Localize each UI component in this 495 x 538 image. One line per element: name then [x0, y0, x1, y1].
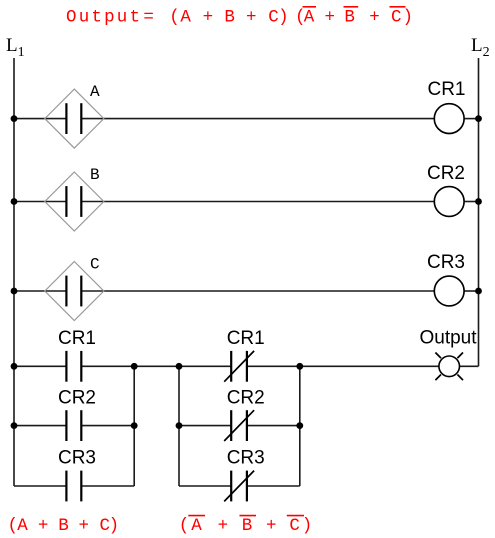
- relay coil CR2: [434, 187, 464, 217]
- node L2-rung1: [475, 115, 482, 122]
- contact CR3 NO bars: [65, 471, 67, 502]
- right power rail L2: [478, 58, 480, 366]
- node bus2-rung4: [176, 363, 183, 370]
- contact CR1 NC slash: [224, 351, 254, 382]
- wire rung2 middle: [81, 201, 434, 203]
- wire rung4 to lamp: [247, 365, 439, 367]
- wire rung4 middle: [81, 365, 231, 367]
- wire CR3-row left: [14, 485, 66, 487]
- svg-text:CR3: CR3: [427, 252, 465, 273]
- title equation: Output = (A + B + C)(A̅ + B̅ + C̅): [66, 8, 413, 28]
- relay coil CR3: [434, 276, 464, 306]
- wire CR3-row to bus1: [81, 485, 134, 487]
- contact C bars: [65, 276, 67, 307]
- svg-text:CR2: CR2: [227, 388, 265, 409]
- output lamp: [435, 353, 463, 381]
- node L2-rung3: [475, 288, 482, 295]
- overbar over B in title: [344, 6, 359, 8]
- overbar over C in bottom label: [287, 515, 304, 517]
- node L2-rung2: [475, 198, 482, 205]
- bus1 vertical (right side of NO group): [133, 366, 135, 486]
- svg-text:CR2: CR2: [427, 163, 465, 184]
- wire rung4 left: [14, 365, 66, 367]
- node L1-rung3: [11, 288, 18, 295]
- input B diamond enclosure: [45, 172, 104, 231]
- wire rung1 right: [464, 118, 478, 120]
- contact CR2 NO bars: [65, 410, 67, 441]
- wire CR2-row bus2 to contact: [179, 425, 231, 427]
- svg-text:CR3: CR3: [58, 448, 96, 469]
- wire rung3 right: [464, 290, 478, 292]
- node bus2-CR2row: [176, 422, 183, 429]
- svg-text:A: A: [90, 83, 100, 101]
- overbar over C in title: [390, 6, 406, 8]
- overbar over A in bottom label: [188, 515, 205, 517]
- svg-text:=: =: [143, 8, 154, 28]
- left power rail L1: [13, 58, 15, 486]
- contact A bars: [65, 103, 67, 134]
- node bus3-rung4: [296, 363, 303, 370]
- wire lamp to right rail: [460, 365, 479, 367]
- node bus1-CR2row: [131, 422, 138, 429]
- input A diamond enclosure: [45, 89, 104, 148]
- contact B bars: [65, 186, 67, 217]
- svg-text:CR3: CR3: [227, 448, 265, 469]
- svg-text:CR1: CR1: [427, 79, 465, 100]
- contact CR2 NC bars: [230, 410, 232, 441]
- node L1-rung4: [11, 363, 18, 370]
- contact CR3 NC slash: [224, 471, 254, 502]
- svg-text:(A+B+C): (A+B+C): [179, 516, 313, 536]
- node L1-rung2: [11, 198, 18, 205]
- wire rung3 middle: [81, 290, 434, 292]
- wire CR2-row to bus1: [81, 425, 134, 427]
- overbar over B in bottom label: [240, 515, 257, 517]
- wire rung2 left: [14, 201, 66, 203]
- node bus1-rung4: [131, 363, 138, 370]
- input C diamond enclosure: [45, 262, 104, 321]
- svg-text:CR2: CR2: [58, 388, 96, 409]
- wire rung1 left: [14, 118, 66, 120]
- wire rung2 right: [464, 201, 478, 203]
- relay coil CR1: [434, 104, 464, 134]
- svg-text:CR1: CR1: [227, 328, 265, 349]
- wire CR2-row left: [14, 425, 66, 427]
- wire CR2-row to bus3: [247, 425, 300, 427]
- svg-text:(A+B+C): (A+B+C): [295, 8, 413, 28]
- bus2 vertical (left side of NC group): [178, 366, 180, 486]
- contact CR1 NC bars: [230, 351, 232, 382]
- overbar over A in title: [303, 6, 317, 8]
- svg-text:B: B: [90, 166, 100, 184]
- svg-text:(A+B+C): (A+B+C): [169, 8, 288, 28]
- contact CR2 NC slash: [224, 410, 254, 441]
- contact CR3 NC bars: [230, 471, 232, 502]
- node L1-CR2row: [11, 422, 18, 429]
- wire CR3-row bus2 to contact: [179, 485, 231, 487]
- node bus3-CR2row: [296, 422, 303, 429]
- svg-text:C: C: [90, 256, 100, 274]
- svg-text:(A+B+C): (A+B+C): [7, 516, 119, 536]
- wire rung1 middle: [81, 118, 434, 120]
- wire CR3-row to bus3: [247, 485, 300, 487]
- node L1-rung1: [11, 115, 18, 122]
- svg-text:Output: Output: [419, 328, 477, 349]
- contact CR1 NO bars: [65, 351, 67, 382]
- wire rung3 left: [14, 290, 66, 292]
- bus3 vertical (right side of NC group): [299, 366, 301, 486]
- svg-text:CR1: CR1: [58, 328, 96, 349]
